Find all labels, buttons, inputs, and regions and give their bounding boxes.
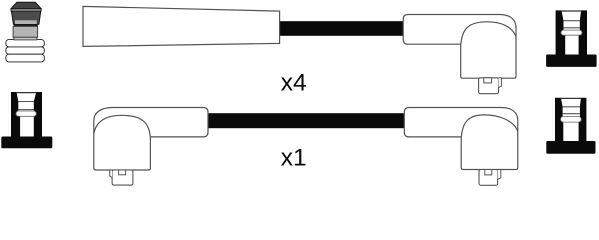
wire (bottom row) [206, 113, 406, 128]
wire (top row) [280, 21, 406, 36]
terminal cross-section icon (bottom right) [546, 98, 595, 154]
svg-text:x4: x4 [281, 70, 307, 97]
svg-text:x1: x1 [281, 145, 307, 172]
terminal cross-section icon (bottom left) [1, 92, 52, 148]
elbow boot (bottom left, mirrored) [94, 108, 208, 186]
elbow boot (bottom right) [404, 108, 518, 186]
tapered distributor boot (top row) [83, 6, 280, 46]
terminal cross-section icon (top right) [546, 10, 597, 67]
elbow boot (top right) [403, 15, 516, 94]
spark plug connector (top left) [6, 2, 44, 62]
